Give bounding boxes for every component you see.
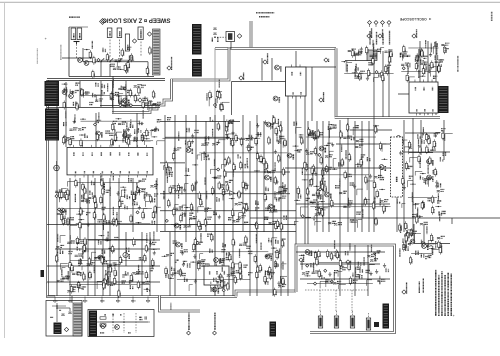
plus mark (notes)	[453, 313, 456, 318]
gate amp box	[286, 65, 307, 99]
transistor Q948	[96, 131, 102, 137]
left board edge bus (bottom corner)	[48, 282, 238, 297]
diamond in upper board	[138, 98, 142, 102]
cap C950	[107, 28, 112, 38]
delay pickoff box	[409, 80, 438, 116]
top-right note SERIAL SN (rotated 180)	[256, 13, 274, 17]
plus mark (top-left)	[45, 36, 48, 41]
shaded component box (center-top)	[367, 50, 377, 61]
cap C952	[117, 28, 122, 38]
component cluster right-top	[400, 40, 449, 82]
transistor Q936	[396, 136, 402, 142]
transistor Q976	[273, 96, 279, 102]
component cluster below U950	[55, 173, 161, 230]
transistor Q958	[319, 146, 325, 152]
connector plugs row (trigger board bottom)	[305, 290, 379, 330]
signal label GND	[324, 58, 329, 62]
transistor Q952	[379, 165, 385, 171]
vertical note SEE IMPORTANT	[457, 56, 459, 72]
note 12.8V nominal	[419, 278, 423, 293]
transistor Q912	[305, 250, 311, 256]
power switch (black box)	[54, 323, 62, 335]
comparator U980	[230, 191, 235, 196]
board edge bus (right drop)	[335, 48, 338, 117]
component cluster lower-center	[162, 233, 287, 297]
note BLIN NO	[69, 16, 80, 18]
output signal labels (top-right)	[368, 21, 391, 45]
component cluster around Q945	[400, 225, 445, 265]
front panel board label (hatched)	[73, 303, 82, 336]
left edge black box	[41, 270, 45, 277]
ext trig connector cluster	[100, 322, 148, 329]
component cluster trigger board	[299, 240, 389, 289]
signal label TD BIAS	[299, 254, 304, 262]
bottom middle black strip	[270, 322, 277, 337]
transistor Q992	[268, 204, 274, 210]
trigger source box outline	[88, 310, 154, 337]
signal label +SAW OUT	[412, 29, 417, 38]
signal label POWER ALL	[319, 92, 324, 102]
transistor Q984	[212, 287, 218, 293]
wire x215 component marks	[212, 28, 225, 42]
switch S950 wafer A	[71, 28, 76, 40]
title diamond marker	[100, 19, 106, 25]
transistor Q944	[120, 101, 126, 107]
top-right note OSCILLOSCOPE (rotated 180)	[399, 17, 432, 21]
transistor Q960	[186, 148, 192, 154]
timing switch box	[138, 27, 143, 40]
component cluster lower-left	[55, 231, 157, 298]
board label HORIZ DISPLAY BOARD (black strip)	[45, 81, 60, 106]
trigger coupling label (black strip bottom-left)	[89, 311, 97, 337]
trigger source contents	[97, 313, 150, 333]
schematic title SWEEP + Z AXIS LOGIC (rotated 180)	[102, 17, 171, 23]
front panel extra wiring	[50, 305, 66, 317]
component cluster center	[162, 116, 287, 231]
board edge bus (top feed)	[250, 21, 253, 50]
switch S950 wafer B	[77, 28, 82, 40]
component cluster above U950	[62, 110, 164, 147]
page top edge line	[0, 1, 500, 3]
page left margin line	[4, 2, 6, 338]
component cluster bus corner	[341, 40, 393, 83]
signal label Y TEKTRONIX	[402, 282, 407, 294]
transistor Q986	[176, 242, 182, 248]
switch contacts	[100, 58, 131, 62]
transistor Q910	[123, 98, 129, 104]
test point (circle-plus)	[54, 161, 60, 171]
transistor Q	[405, 233, 410, 238]
component cluster upper board	[62, 79, 161, 111]
component cluster inside bus corner	[207, 79, 230, 111]
signal path gray line (vertical x215)	[214, 48, 216, 296]
sweep control IC U950	[67, 145, 153, 190]
transistor Q970	[266, 122, 272, 128]
holdoff relay box K980	[204, 264, 229, 288]
transistor Q964	[60, 208, 66, 214]
switch wiper T-bar	[74, 42, 80, 45]
switch common rail	[83, 48, 148, 77]
transistor Q	[410, 239, 415, 244]
power switch diamond	[64, 327, 68, 331]
board edge bus (left drop)	[171, 48, 230, 81]
signal coupler label (black strip)	[383, 304, 390, 329]
bottom board edge bus (jog right)	[236, 291, 296, 297]
delay pickoff IC U930 (dashed tall box)	[391, 137, 403, 197]
vertical note (left faint)	[36, 48, 38, 64]
transistor Q985	[214, 258, 220, 264]
delay pickoff label (black strip right)	[438, 86, 449, 113]
connector tick labels along bottom bus	[53, 297, 150, 304]
signal label HOLDOFF	[239, 72, 244, 80]
vertical note looking into	[170, 303, 172, 310]
transistor Q950	[287, 153, 293, 159]
signal label GND	[346, 260, 351, 264]
notes text block (rotated, right side)	[436, 270, 452, 316]
vertical note P/O A1 board	[60, 44, 62, 60]
transistor Q	[62, 90, 67, 95]
board edge bus staircase	[112, 79, 172, 113]
transistor Q974	[98, 255, 104, 261]
resistor R955 (tall)	[125, 34, 129, 51]
svg-text:SWEEP ¤ Z AXIS LOGIC: SWEEP ¤ Z AXIS LOGIC	[102, 17, 171, 23]
component cluster top-left columns	[84, 41, 151, 79]
front panel box outline	[46, 301, 82, 337]
board edge bus (upper horizontal run)	[215, 47, 336, 50]
transistor Q940	[427, 159, 433, 165]
trigger board outline (gray rectangle)	[296, 245, 395, 333]
transistor Q	[69, 94, 74, 99]
board edge bus (right horizontal run)	[335, 116, 440, 119]
board label TIMING BOARD (black strip)	[45, 109, 59, 141]
dashed switch shafts	[77, 40, 142, 59]
transistor Q954	[123, 133, 129, 139]
diamond marker 6	[132, 39, 136, 43]
svg-text:◄ OSCILLOSCOPE: ◄ OSCILLOSCOPE	[399, 17, 432, 21]
signal label +GATE OUT	[367, 28, 372, 38]
transistor Q975	[275, 65, 281, 71]
connector section edge bus	[160, 296, 201, 312]
signal label SLOPE	[275, 249, 280, 255]
signal label SAWTOOTH	[378, 29, 383, 38]
component cluster far-right	[397, 127, 453, 232]
transistor Q	[84, 61, 89, 66]
board label strip (center-top dark A)	[192, 24, 202, 55]
board label strip (top-left hatched)	[153, 29, 161, 75]
transistor Q	[78, 58, 83, 63]
small component box J0 (top)	[226, 32, 235, 42]
schematic wire mesh	[47, 36, 500, 303]
board label strip (center-top dark B)	[192, 59, 202, 77]
transistor Q990	[265, 175, 271, 181]
trimmer R971	[123, 252, 129, 259]
signal label DELAY GATE	[263, 53, 268, 64]
transistor Q988	[265, 254, 271, 260]
test point diamond (top small box)	[237, 34, 242, 39]
transistor Q956	[325, 192, 331, 198]
switch block outline	[69, 27, 154, 77]
left board edge bus (vertical)	[46, 80, 49, 284]
signal label SWEEP LENGTH	[167, 57, 172, 70]
component cluster right-center	[293, 122, 391, 228]
transistor Q945	[422, 244, 428, 250]
front panel wiring	[56, 303, 71, 322]
trigger source extra marks	[100, 315, 146, 333]
transistor Q942	[427, 175, 433, 181]
transistor Q966	[174, 223, 180, 229]
bottom signal labels EXT/INT TRIG	[187, 313, 217, 335]
diamond marker 7	[147, 32, 151, 36]
sheet number SN 2812	[491, 12, 493, 21]
